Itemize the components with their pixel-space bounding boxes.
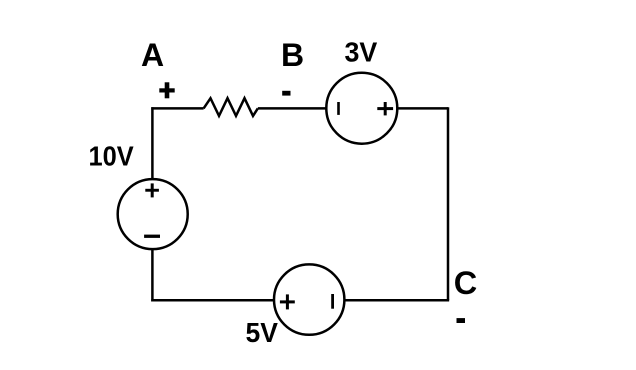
3V source - terminal mark (left bar) — [337, 102, 340, 115]
value label 10V — [89, 141, 134, 172]
svg-text:C: C — [454, 265, 477, 301]
wire resistor to 3V source (node B) — [258, 107, 327, 110]
wire top-left horizontal (node A to resistor) — [151, 107, 203, 110]
wire left vertical upper (node A to 10V source) — [151, 107, 154, 179]
voltage source 5V — [274, 264, 344, 334]
svg-text:B: B — [281, 37, 304, 73]
5V source + terminal mark — [280, 294, 295, 309]
voltage source 3V — [326, 73, 397, 144]
node C label — [454, 265, 477, 301]
polarity + at node A — [159, 82, 174, 98]
wire bottom-left horizontal (5V source to left corner) — [151, 299, 274, 302]
value label 5V — [246, 317, 279, 348]
voltage source 10V — [118, 179, 188, 249]
10V source + terminal mark — [145, 183, 159, 197]
svg-text:5V: 5V — [246, 317, 279, 348]
3V source + terminal mark — [377, 102, 393, 115]
svg-text:A: A — [141, 37, 164, 73]
value label 3V — [345, 37, 378, 68]
polarity - at node B — [282, 91, 290, 96]
node A label — [141, 37, 164, 73]
svg-text:10V: 10V — [89, 141, 134, 172]
resistor — [204, 98, 258, 116]
wire right vertical (to node C) — [447, 107, 450, 300]
svg-text:3V: 3V — [345, 37, 378, 68]
wire left vertical lower (10V source to bottom corner) — [151, 249, 154, 301]
wire 3V source to top-right corner — [397, 107, 448, 110]
10V source - terminal mark — [144, 235, 160, 238]
5V source - terminal mark (right bar) — [331, 294, 334, 309]
wire bottom-right horizontal (node C to 5V source) — [344, 299, 449, 302]
node B label — [281, 37, 304, 73]
polarity - at node C — [457, 318, 466, 323]
